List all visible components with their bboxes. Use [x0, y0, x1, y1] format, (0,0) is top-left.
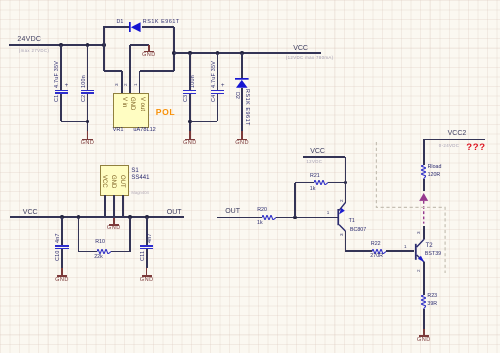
resistor R23 — [421, 295, 426, 309]
ground symbol below C10 — [61, 268, 63, 276]
label D2 — [233, 92, 239, 99]
capacitor C1 bottom wire — [60, 94, 62, 121]
value label 120R for Rload — [428, 173, 441, 179]
ground symbol below C2 — [87, 131, 89, 140]
label VR1 — [113, 128, 124, 134]
value label 39R for R23 — [427, 302, 437, 308]
label T2 — [426, 243, 433, 249]
value label 4.7uF 35V for C4 — [212, 61, 218, 88]
value label BC807 — [350, 228, 366, 234]
wire VCC2 drop to Rload — [423, 140, 425, 165]
label C1 — [55, 94, 61, 101]
value label 4n7 for C11 — [148, 233, 154, 243]
pin number 3 of VR1 — [115, 83, 120, 86]
junction C1/C2 ground node — [86, 120, 90, 124]
transistor T2 collector wire — [423, 226, 425, 240]
pin number 2 of T2 — [417, 270, 422, 273]
transistor T1 collector wire — [345, 231, 347, 252]
S1 pin name OUT — [118, 175, 124, 188]
resistor R22 — [372, 249, 386, 254]
capacitor C1 plus sign — [65, 83, 69, 90]
junction T1 emitter node — [344, 181, 348, 185]
ground symbol at VR1 pin2 — [148, 45, 150, 51]
label C2 — [82, 94, 88, 101]
ground symbol below C3 — [189, 131, 191, 139]
wire Rload to probe arrow — [423, 179, 425, 191]
VR1 pin name V in — [121, 97, 127, 107]
wire sensor VCC rail — [10, 216, 114, 218]
pin number 2 of T1 — [340, 199, 345, 202]
capacitor C11 bottom wire — [146, 249, 148, 268]
junction sensor rail at C11 — [145, 215, 149, 219]
wire C4 to C3 ground link — [190, 121, 218, 123]
capacitor C10 plates — [55, 245, 68, 247]
note text 0-24VDC — [439, 144, 460, 149]
junction on 24VDC rail at C2 — [86, 43, 90, 47]
value label SS441 — [131, 175, 149, 181]
capacitor C2 bottom wire — [87, 94, 89, 131]
net label OUT (driver input) — [225, 208, 240, 215]
wire R20 to T1 base — [276, 217, 338, 219]
junction VCC rail at C4 — [216, 51, 220, 55]
pin number 2 of VR1 — [124, 83, 129, 86]
label T1 — [349, 219, 355, 225]
wire S1 OUT pin — [122, 195, 124, 218]
wire S1 GND pin — [113, 195, 115, 219]
capacitor C3 plates — [183, 90, 196, 92]
label S1 — [131, 168, 138, 174]
label R10 — [95, 240, 105, 246]
pin number 1 of T1 — [327, 211, 330, 216]
junction VCC rail at D1 riser — [172, 51, 176, 55]
value label uA78L12 — [133, 128, 155, 134]
junction sensor rail at R10 right — [128, 215, 132, 219]
capacitor C1 top wire — [60, 45, 62, 90]
wire R23 to ground — [423, 309, 425, 329]
capacitor C11 top wire — [146, 217, 148, 245]
S1 pin name GND — [110, 175, 116, 188]
capacitor C10 bottom wire — [61, 249, 63, 268]
capacitor C11 plates — [140, 245, 153, 247]
label D1 — [117, 20, 124, 26]
label R20 — [257, 208, 267, 214]
wire VR1 pin3 horizontal from 24VDC riser — [103, 45, 105, 71]
wire VR1 pin1 drop — [139, 71, 141, 94]
resistor R10 — [97, 249, 111, 254]
wire VR1 pin3 drop — [121, 71, 123, 94]
junction VCC rail at D2 — [240, 51, 244, 55]
capacitor C4 plus sign — [221, 83, 225, 90]
S1 pin name VCC — [101, 175, 107, 188]
text ??? — [466, 143, 486, 153]
resistor R21 — [314, 180, 328, 185]
label R21 — [310, 174, 320, 180]
label R23 — [427, 294, 437, 300]
value label 1k for R20 — [257, 221, 263, 227]
sensor S1 body — [100, 165, 130, 196]
wire D1 top left segment — [104, 26, 130, 28]
ground symbol below S1 — [113, 218, 115, 225]
probe arrow directive — [419, 193, 428, 224]
ground symbol below C11 — [146, 268, 148, 276]
wire D1 left riser — [103, 26, 105, 45]
diode D2 top wire — [241, 53, 243, 78]
note text 12VDC — [306, 160, 322, 165]
net label 24VDC — [17, 36, 41, 43]
capacitor C3 bottom wire — [189, 94, 191, 131]
diode D2 — [235, 78, 249, 88]
wire VCC stub horizontal — [303, 156, 345, 158]
value label 100n for C3 — [191, 75, 197, 88]
wire R22 to T2 base — [386, 250, 414, 252]
wire S1 VCC pin — [104, 195, 106, 218]
value label 100n for C2 — [82, 75, 88, 88]
transistor T2 emitter wire — [423, 262, 425, 295]
wire 24VDC rail — [9, 44, 105, 46]
junction 24VDC rail to D1 riser — [102, 43, 106, 47]
capacitor C4 bottom wire — [217, 94, 219, 121]
net label VCC (driver supply) — [310, 148, 325, 155]
pin number 3 of T1 — [340, 234, 345, 237]
net label OUT (sensor output) — [167, 209, 182, 216]
junction VCC rail at C3 — [188, 51, 192, 55]
wire R10 right leg — [111, 251, 130, 253]
label C4 — [212, 94, 218, 101]
value label 4n7 for C10 — [56, 233, 62, 243]
wire VR1 pin1 horizontal to VCC riser — [140, 70, 174, 72]
note text max 27VDC — [19, 49, 49, 54]
note text 12VDC max 780mA — [286, 56, 334, 61]
capacitor C3 top wire — [189, 53, 191, 90]
capacitor C2 plates — [81, 90, 94, 92]
value label 270R for R22 — [370, 254, 383, 260]
capacitor C4 top wire — [217, 53, 219, 90]
capacitor C2 top wire — [87, 45, 89, 90]
junction sensor rail at R10 left — [77, 215, 81, 219]
wire VR1 pin2 vertical — [129, 45, 131, 93]
wire D1 top right segment — [142, 26, 174, 28]
transistor T1 emitter wire — [345, 183, 347, 204]
ground symbol below R23 — [423, 329, 425, 337]
label C10 — [56, 251, 62, 262]
wire VCC stub drop — [345, 157, 347, 183]
value label 22k for R10 — [94, 255, 103, 261]
capacitor C10 top wire — [61, 217, 63, 245]
wire VR1 pin2 to GND port — [130, 44, 149, 46]
label C11 — [141, 251, 147, 261]
text POL — [156, 108, 175, 117]
regulator VR1 body — [113, 93, 148, 128]
value label 1k for R21 — [310, 187, 316, 193]
footprint text for S1 — [131, 191, 148, 195]
wire sensor OUT rail — [114, 216, 184, 218]
capacitor C4 plates — [211, 90, 224, 92]
junction C3/C4 ground node — [188, 120, 192, 124]
junction driver input node — [293, 216, 297, 220]
net label VCC (regulator output) — [293, 45, 308, 52]
value label RS1K E961T for D1 — [143, 20, 180, 26]
transistor T1 (PNP) — [336, 201, 348, 233]
value label RS1K E961T for D2 — [243, 89, 249, 126]
ground symbol below D2 — [241, 131, 243, 139]
VR1 pin name V out — [138, 97, 144, 111]
diode D2 bottom wire — [241, 88, 243, 131]
wire R10 left leg — [78, 217, 80, 252]
wire driver input to R20 — [217, 217, 262, 219]
wire junction riser to R21 — [294, 183, 296, 218]
pin number 1 of T2 — [404, 245, 407, 250]
resistor Rload — [421, 165, 426, 179]
label Rload — [428, 165, 442, 171]
blanket dashed outline — [375, 142, 447, 274]
wire D1 right riser to VCC rail — [173, 27, 175, 71]
wire C1 to C2 ground link — [61, 121, 87, 123]
junction sensor rail at C10 — [60, 215, 64, 219]
wire VCC2 rail — [423, 139, 485, 141]
diode D1 — [129, 22, 142, 32]
resistor R20 — [262, 215, 276, 220]
pin number 3 of T2 — [417, 232, 422, 235]
label R22 — [371, 242, 381, 248]
value label 4.7uF 35V for C1 — [55, 61, 61, 88]
net label VCC (sensor supply) — [23, 209, 38, 216]
wire VCC output rail — [174, 52, 321, 54]
transistor T2 (NPN) — [414, 237, 426, 264]
capacitor C1 plates — [55, 90, 68, 92]
label C3 — [184, 94, 190, 101]
junction on 24VDC rail at C1 — [59, 43, 63, 47]
pin number 1 of VR1 — [134, 83, 139, 86]
net label VCC2 — [448, 130, 467, 137]
value label BST39 — [425, 252, 441, 258]
VR1 pin name GND — [129, 97, 135, 110]
wire R21 to VCC corner — [328, 182, 346, 184]
